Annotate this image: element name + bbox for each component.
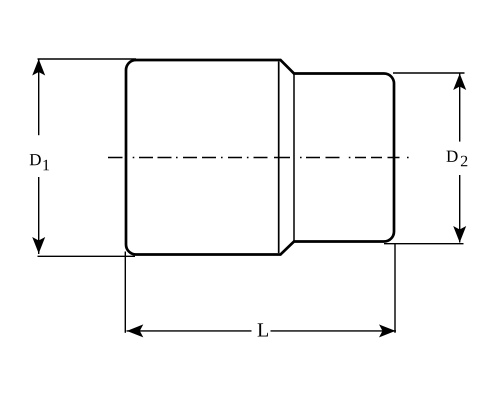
arrowhead L right bbox=[379, 324, 396, 337]
label D1 bbox=[30, 154, 41, 165]
extension line bottom-right (D2 lower) bbox=[384, 243, 464, 245]
extension line bottom-left (D1 lower) bbox=[38, 255, 136, 257]
dimension line D1 lower segment bbox=[38, 177, 40, 254]
extension line L left vertical bbox=[124, 252, 126, 333]
dimension line L right segment bbox=[271, 330, 397, 332]
arrowhead D2 down bbox=[453, 226, 466, 243]
extension line top-left (D1 upper) bbox=[38, 58, 137, 60]
dimension line L left segment bbox=[127, 330, 252, 332]
arrowhead D1 down bbox=[32, 237, 45, 254]
body outline (stepped cylinder silhouette) bbox=[126, 60, 394, 255]
dimension line D2 lower segment bbox=[459, 175, 461, 243]
dimension line D1 upper segment bbox=[38, 59, 40, 135]
label D2 bbox=[446, 151, 457, 162]
small cylinder left edge line bbox=[293, 74, 295, 241]
dimension line D2 upper segment bbox=[459, 74, 461, 142]
arrowhead D2 up bbox=[453, 74, 466, 91]
centerline (dash-dot axis) bbox=[108, 157, 409, 159]
extension line top-right (D2 upper) bbox=[393, 72, 465, 74]
extension line L right vertical bbox=[394, 244, 396, 333]
arrowhead D1 up bbox=[32, 59, 45, 76]
label L bbox=[258, 323, 268, 336]
arrowhead L left bbox=[127, 324, 144, 337]
step face line (large cylinder right face) bbox=[278, 62, 280, 254]
